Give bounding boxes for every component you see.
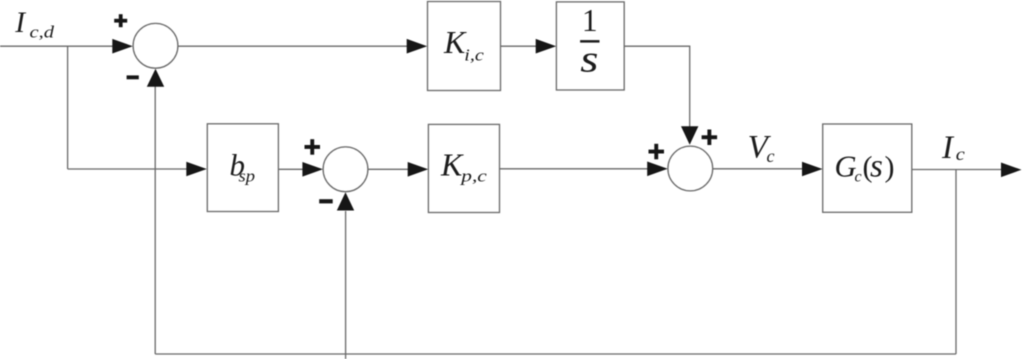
block G_c(s) <box>823 124 912 212</box>
arrow feedback into sum1 (up) <box>147 69 164 87</box>
node sum2 circle <box>323 147 368 192</box>
svg-text:sp: sp <box>239 166 256 185</box>
svg-text:I: I <box>14 7 26 39</box>
block K_i,c <box>428 2 501 91</box>
svg-text:c: c <box>855 168 862 185</box>
wire output branch down <box>955 170 957 355</box>
arrow into K_p,c <box>408 162 429 177</box>
arrow into sum3 top (down) <box>681 126 698 145</box>
minus sign sum1 <box>127 75 139 79</box>
arrow into G_c <box>802 162 823 177</box>
wire sum2 to K_p,c <box>368 168 410 170</box>
block b_sp <box>207 124 278 212</box>
arrow feedback into sum2 (up) <box>337 192 354 210</box>
svg-text:s: s <box>580 39 598 81</box>
svg-text:): ) <box>885 151 895 184</box>
wire sum3 to G_c <box>713 168 804 170</box>
wire K_i,c to 1/s <box>501 45 538 47</box>
arrow into sum1 <box>112 39 133 54</box>
arrow into sum2 <box>302 162 323 177</box>
wire G_c output <box>912 169 1003 171</box>
wire K_p,c to sum3 <box>500 168 650 170</box>
svg-text:p,c: p,c <box>460 166 488 185</box>
svg-text:s: s <box>870 149 883 185</box>
wire feedback mid up to sum2 <box>345 211 347 359</box>
wire feedback bottom <box>155 353 956 355</box>
wire branch to b_sp <box>68 168 189 170</box>
svg-text:I: I <box>941 130 955 166</box>
block 1/s <box>556 2 624 90</box>
arrow into b_sp <box>186 162 207 177</box>
svg-text:i,c: i,c <box>464 46 484 65</box>
plus sign sum1 <box>114 19 127 23</box>
plus sign sum2 <box>305 145 321 149</box>
svg-text:c: c <box>956 144 965 164</box>
svg-text:c: c <box>767 146 775 166</box>
wire feedback left up to sum1 <box>154 87 156 355</box>
arrow output <box>1001 163 1022 178</box>
arrow into 1/s <box>536 39 557 54</box>
wire 1/s to sum3 corner <box>624 46 690 127</box>
svg-text:1: 1 <box>582 3 598 38</box>
wire b_sp to sum2 <box>278 168 304 170</box>
arrow into sum3 left <box>647 162 668 177</box>
svg-text:c,d: c,d <box>30 23 55 42</box>
minus sign sum2 <box>319 199 333 203</box>
wire sum1 to K_i,c <box>178 45 409 47</box>
plus sign sum3 left <box>649 150 665 154</box>
label 1/s: fraction bar <box>580 40 599 43</box>
block K_p,c <box>428 124 499 212</box>
node sum3 circle <box>668 146 713 191</box>
wire branch down from input <box>67 46 69 169</box>
node sum1 circle <box>133 23 178 68</box>
svg-text:G: G <box>835 150 857 184</box>
plus sign sum3 top <box>702 135 718 139</box>
arrow into K_i,c <box>407 39 428 54</box>
wire input <box>0 45 114 47</box>
